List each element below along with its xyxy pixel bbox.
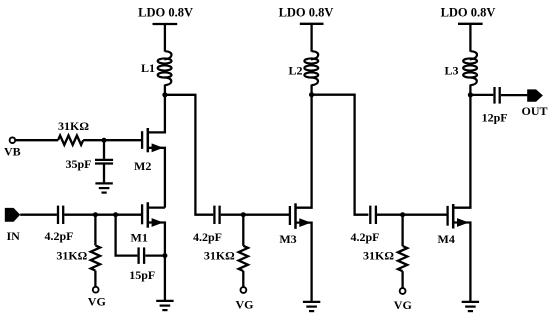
wire supply to L1 (164, 24, 166, 52)
svg-text:L3: L3 (444, 64, 458, 78)
node 15pF junction (113, 212, 118, 217)
supply rail bar (stage 1) (153, 23, 178, 25)
terminal VG (stage 2) (241, 287, 247, 293)
svg-text:4.2pF: 4.2pF (44, 229, 73, 243)
wire C1 to M1 gate (64, 214, 142, 216)
wire interstage 1 to 2 (165, 95, 213, 215)
terminal VG (stage 3) (400, 288, 406, 294)
supply rail bar (stage 3) (458, 23, 483, 25)
node M1 source / 15pF junction (162, 253, 167, 258)
inductor L1 (158, 51, 172, 85)
supply rail bar (stage 2) (300, 23, 324, 25)
ground (M4 source) (462, 302, 479, 311)
svg-text:VB: VB (4, 144, 21, 158)
wire L1 to node A (164, 85, 166, 95)
wire supply to L3 (469, 24, 471, 52)
wire supply to L2 (310, 24, 312, 52)
svg-text:M3: M3 (279, 232, 296, 246)
node R4 junction (400, 212, 405, 217)
node A (L1 / M2 drain junction) (162, 92, 167, 97)
svg-text:4.2pF: 4.2pF (193, 230, 222, 244)
wire L2 to node B (310, 85, 312, 95)
svg-text:M2: M2 (134, 159, 151, 173)
terminal OUT (527, 89, 543, 101)
svg-text:31KΩ: 31KΩ (56, 248, 87, 262)
svg-text:31KΩ: 31KΩ (204, 249, 235, 263)
svg-text:35pF: 35pF (65, 157, 91, 171)
svg-text:12pF: 12pF (482, 110, 508, 124)
capacitor C5 4.2pF (370, 206, 376, 224)
svg-text:M4: M4 (438, 232, 455, 246)
resistor R2 31K vertical (91, 215, 100, 287)
ground (M3 source) (303, 302, 320, 311)
node C (L3 / M4 drain / output junction) (468, 92, 473, 97)
svg-text:L1: L1 (141, 61, 155, 75)
svg-text:VG: VG (394, 298, 412, 312)
svg-text:LDO 0.8V: LDO 0.8V (279, 6, 334, 20)
svg-text:31KΩ: 31KΩ (58, 119, 89, 133)
svg-text:31KΩ: 31KΩ (363, 249, 394, 263)
capacitor C2 15pF branch (116, 215, 165, 264)
svg-text:VG: VG (88, 294, 106, 308)
svg-text:OUT: OUT (521, 104, 547, 118)
wire L3 to node C (469, 85, 471, 95)
svg-text:15pF: 15pF (129, 268, 155, 282)
node B (L2 / M3 drain junction) (309, 92, 314, 97)
wire C6 to OUT (501, 94, 528, 96)
capacitor 35pF (95, 140, 113, 182)
terminal VG (stage 1) (93, 287, 99, 293)
capacitor C3 4.2pF (214, 206, 219, 224)
svg-text:L2: L2 (288, 64, 302, 78)
svg-text:4.2pF: 4.2pF (350, 230, 379, 244)
terminal VB (10, 137, 16, 143)
svg-text:LDO 0.8V: LDO 0.8V (138, 6, 193, 20)
transistor M2 (142, 95, 165, 208)
resistor R3 31K vertical (239, 215, 248, 287)
wire interstage 2 to 3 (312, 95, 369, 215)
wire node C to C6 (470, 94, 493, 96)
transistor M4 (448, 95, 471, 302)
ground (M1 source) (156, 301, 173, 310)
ground (35pF) (95, 183, 112, 192)
wire C5 to M4 gate (377, 214, 448, 216)
wire VB to R1 (15, 139, 58, 141)
capacitor C1 4.2pF (58, 206, 63, 224)
node R2 junction (93, 212, 98, 217)
wire R1 to M2 gate (83, 139, 142, 141)
transistor M1 (142, 202, 165, 301)
wire IN to C1 (20, 214, 57, 216)
capacitor C6 12pF (495, 87, 500, 104)
wire C3 to M3 gate (221, 214, 291, 216)
svg-text:IN: IN (7, 229, 21, 243)
terminal IN (5, 208, 20, 222)
transistor M3 (290, 95, 312, 302)
svg-text:LDO 0.8V: LDO 0.8V (441, 6, 496, 20)
svg-text:VG: VG (236, 297, 254, 311)
resistor R4 31K vertical (398, 215, 407, 288)
svg-text:M1: M1 (131, 231, 148, 245)
resistor R1 31K horizontal (58, 136, 83, 145)
node M2 gate / 35pF junction (102, 138, 107, 143)
inductor L3 (463, 51, 477, 85)
inductor L2 (304, 51, 318, 85)
node R3 junction (241, 212, 246, 217)
